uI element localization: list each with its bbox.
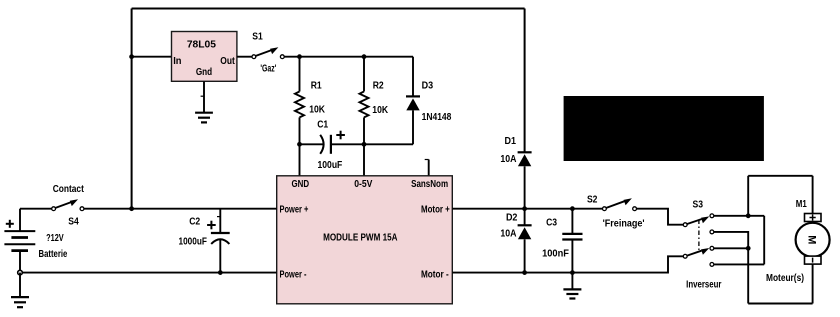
diode D2 10A (500, 209, 531, 273)
node junction D2 bottom on Motor- rail (522, 270, 527, 275)
svg-text:Power -: Power - (280, 270, 307, 281)
wire S3 contact 2 (714, 232, 748, 304)
svg-text:78L05: 78L05 (187, 40, 217, 51)
svg-text:Moteur(s): Moteur(s) (766, 273, 804, 284)
svg-text:S3: S3 (693, 200, 704, 211)
svg-text:Gnd: Gnd (196, 67, 212, 78)
switch S2 'Freinage' (587, 195, 645, 230)
svg-text:10K: 10K (309, 104, 325, 115)
wire S3 contact 4 (714, 263, 764, 265)
svg-text:C1: C1 (317, 120, 329, 131)
wire motor box left upper edge (747, 176, 749, 216)
wire Motor- rail to S3 bottom pole (452, 256, 683, 272)
wire C1 row right (331, 143, 413, 145)
svg-text:Contact: Contact (53, 184, 85, 195)
wire S2 to S3 top pole (637, 209, 684, 225)
svg-text:S1: S1 (252, 32, 263, 43)
switch S3 Inverseur (DPDT) (683, 200, 721, 291)
svg-text:100nF: 100nF (542, 249, 569, 260)
wire 78L05 Gnd pin down (201, 81, 204, 112)
diode D3 1N4148 (406, 57, 452, 145)
wire Motor+ rail (452, 208, 602, 210)
svg-text:In: In (173, 56, 181, 67)
module U2 MODULE PWM 15A (277, 176, 453, 304)
wire S1 to R1/R2/D3 top rail (284, 56, 413, 58)
node junction contact3 on box edge (746, 246, 751, 251)
wire top rail (132, 8, 525, 10)
regulator U1 78L05 (172, 32, 237, 82)
svg-text:Motor +: Motor + (421, 205, 450, 216)
ground below battery (11, 297, 29, 307)
svg-text:Power +: Power + (280, 205, 309, 216)
node junction at In wire (129, 54, 134, 59)
svg-text:SansNom: SansNom (411, 179, 448, 190)
svg-text:'Freinage': 'Freinage' (603, 219, 645, 230)
svg-text:M1: M1 (796, 199, 807, 210)
svg-text:10K: 10K (372, 105, 388, 116)
wire S4 to module Power+ (84, 208, 277, 210)
capacitor C1 100uF (317, 120, 345, 172)
node junction C2 bottom (218, 270, 223, 275)
svg-text:0-5V: 0-5V (354, 179, 373, 190)
node junction R2 top (362, 54, 367, 59)
wire motor box bottom edge (748, 303, 812, 305)
wire bottom rail battery to module Power- (20, 272, 277, 274)
black redaction rectangle (564, 96, 764, 161)
wire C1 row left (300, 143, 324, 145)
node C2 top tee (217, 216, 220, 218)
wire left vertical from top rail to battery rail (131, 9, 133, 209)
battery B1 (4, 209, 67, 273)
svg-text:S4: S4 (68, 216, 79, 227)
ground below C3 (563, 289, 581, 298)
svg-text:10A: 10A (500, 154, 516, 165)
svg-text:Inverseur: Inverseur (686, 280, 721, 291)
svg-text:Out: Out (220, 56, 235, 67)
wire S3 contact 1 to motor box (714, 215, 764, 217)
svg-text:'Gaz': 'Gaz' (260, 64, 276, 75)
wire motor box top edge (748, 175, 812, 177)
wire loop contact1 to contact4 (763, 216, 765, 265)
svg-text:C2: C2 (189, 217, 200, 228)
wire 0-5V pin into module (363, 144, 365, 176)
node junction C3 bottom (570, 270, 575, 275)
svg-text:R2: R2 (373, 81, 384, 92)
wire S3 contact 3 (714, 247, 748, 249)
wire top rail corner down to D1 (524, 9, 526, 153)
node junction R2 bottom (362, 142, 367, 147)
svg-text:R1: R1 (311, 81, 323, 92)
wire 78L05 Out to S1 (237, 56, 252, 58)
svg-text:S2: S2 (587, 195, 598, 206)
resistor R2 10K (360, 57, 389, 145)
svg-text:D2: D2 (506, 213, 518, 224)
node junction contact1 on box edge (746, 213, 751, 218)
wire motor box right lower edge (812, 264, 814, 303)
node junction D1 bottom on Motor+ rail (522, 206, 527, 211)
switch S1 'Gaz' (252, 32, 284, 75)
svg-text:Batterie: Batterie (39, 249, 68, 260)
svg-text:1000uF: 1000uF (179, 236, 207, 247)
wire motor box right upper edge (812, 176, 814, 214)
node junction R1 bottom (297, 142, 302, 147)
svg-text:1N4148: 1N4148 (422, 112, 452, 123)
switch S4 Contact (52, 184, 85, 227)
capacitor C2 1000uF (179, 209, 230, 273)
svg-text:C3: C3 (546, 218, 558, 229)
resistor R1 10K (295, 57, 325, 145)
wire C3 to ground (571, 273, 573, 290)
svg-text:GND: GND (292, 179, 310, 190)
wire GND pin into module (299, 144, 301, 176)
node junction R1 top (297, 54, 302, 59)
node junction C3 top (570, 206, 575, 211)
wire 78L05 In pin (132, 56, 172, 58)
node junction left vertical on battery rail (129, 206, 134, 211)
motor M1 (766, 199, 830, 284)
svg-text:10A: 10A (500, 229, 516, 240)
capacitor C3 100nF (542, 209, 582, 273)
diode D1 10A (500, 136, 531, 209)
svg-text:M: M (806, 235, 818, 244)
svg-text:Motor -: Motor - (421, 270, 449, 281)
svg-text:?12V: ?12V (46, 233, 64, 244)
ground below 78L05 (195, 113, 213, 123)
wire battery to ground (19, 273, 21, 298)
wire SansNom stub (425, 160, 429, 176)
svg-text:100uF: 100uF (318, 160, 343, 171)
svg-text:D3: D3 (422, 81, 434, 92)
svg-text:D1: D1 (505, 136, 517, 147)
wire battery plus to S4 (20, 208, 52, 210)
svg-text:MODULE PWM 15A: MODULE PWM 15A (323, 233, 397, 244)
node junction battery bottom (18, 270, 23, 275)
